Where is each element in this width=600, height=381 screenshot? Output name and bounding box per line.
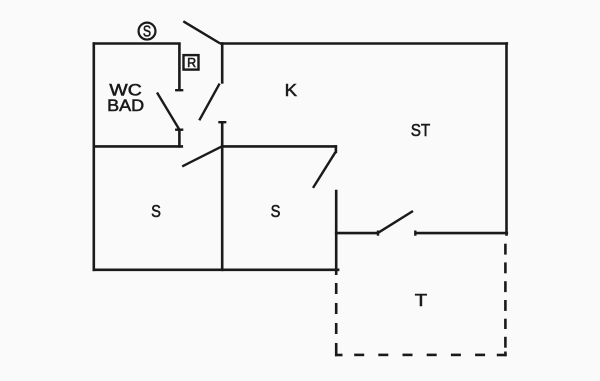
dashed terrace right side <box>504 244 507 255</box>
jamb tick WC lower <box>175 128 183 130</box>
svg-text:T: T <box>415 290 428 310</box>
svg-text:R: R <box>187 56 196 70</box>
wall S divider <box>221 122 224 271</box>
jamb tick terrace right <box>414 231 416 236</box>
wall hall/S2 top <box>221 145 337 148</box>
svg-text:K: K <box>285 80 298 100</box>
dashed terrace bottom side <box>354 354 364 357</box>
jamb tick WC upper <box>175 89 183 91</box>
wall outer bottom <box>93 268 340 271</box>
door leaf entrance <box>183 21 220 43</box>
wall outer left <box>93 42 96 271</box>
wall WC right upper <box>178 43 181 91</box>
jamb tick terrace left <box>377 231 379 236</box>
symbol circled S <box>139 23 156 40</box>
dashed terrace bottom-right corner <box>497 354 507 357</box>
door leaf S2 <box>313 152 335 188</box>
svg-text:S: S <box>151 201 161 221</box>
wall WC bottom <box>93 145 184 148</box>
dashed terrace bottom-left corner <box>335 343 338 356</box>
wall K left <box>221 42 224 83</box>
wall ST/T left segment <box>335 232 378 235</box>
wall S2 right <box>335 190 338 275</box>
wall top-left (WC top) <box>93 42 181 45</box>
wall outer right <box>505 42 508 236</box>
svg-text:BAD: BAD <box>107 97 144 115</box>
jamb tick S divider top <box>218 121 226 123</box>
door leaf terrace <box>378 211 413 233</box>
wall ST/T right segment <box>415 232 508 235</box>
svg-text:S: S <box>271 201 281 221</box>
svg-text:ST: ST <box>411 120 431 140</box>
wall S2 corner stub <box>335 145 338 153</box>
wall top-right (K/ST top) <box>220 42 508 45</box>
dashed terrace left side <box>335 283 338 294</box>
wall WC right lower jamb <box>178 130 181 148</box>
door leaf WC <box>157 93 180 131</box>
door leaf S1 <box>182 146 222 166</box>
svg-text:S: S <box>143 24 151 41</box>
symbol boxed R <box>184 55 199 70</box>
door leaf K <box>199 84 219 121</box>
